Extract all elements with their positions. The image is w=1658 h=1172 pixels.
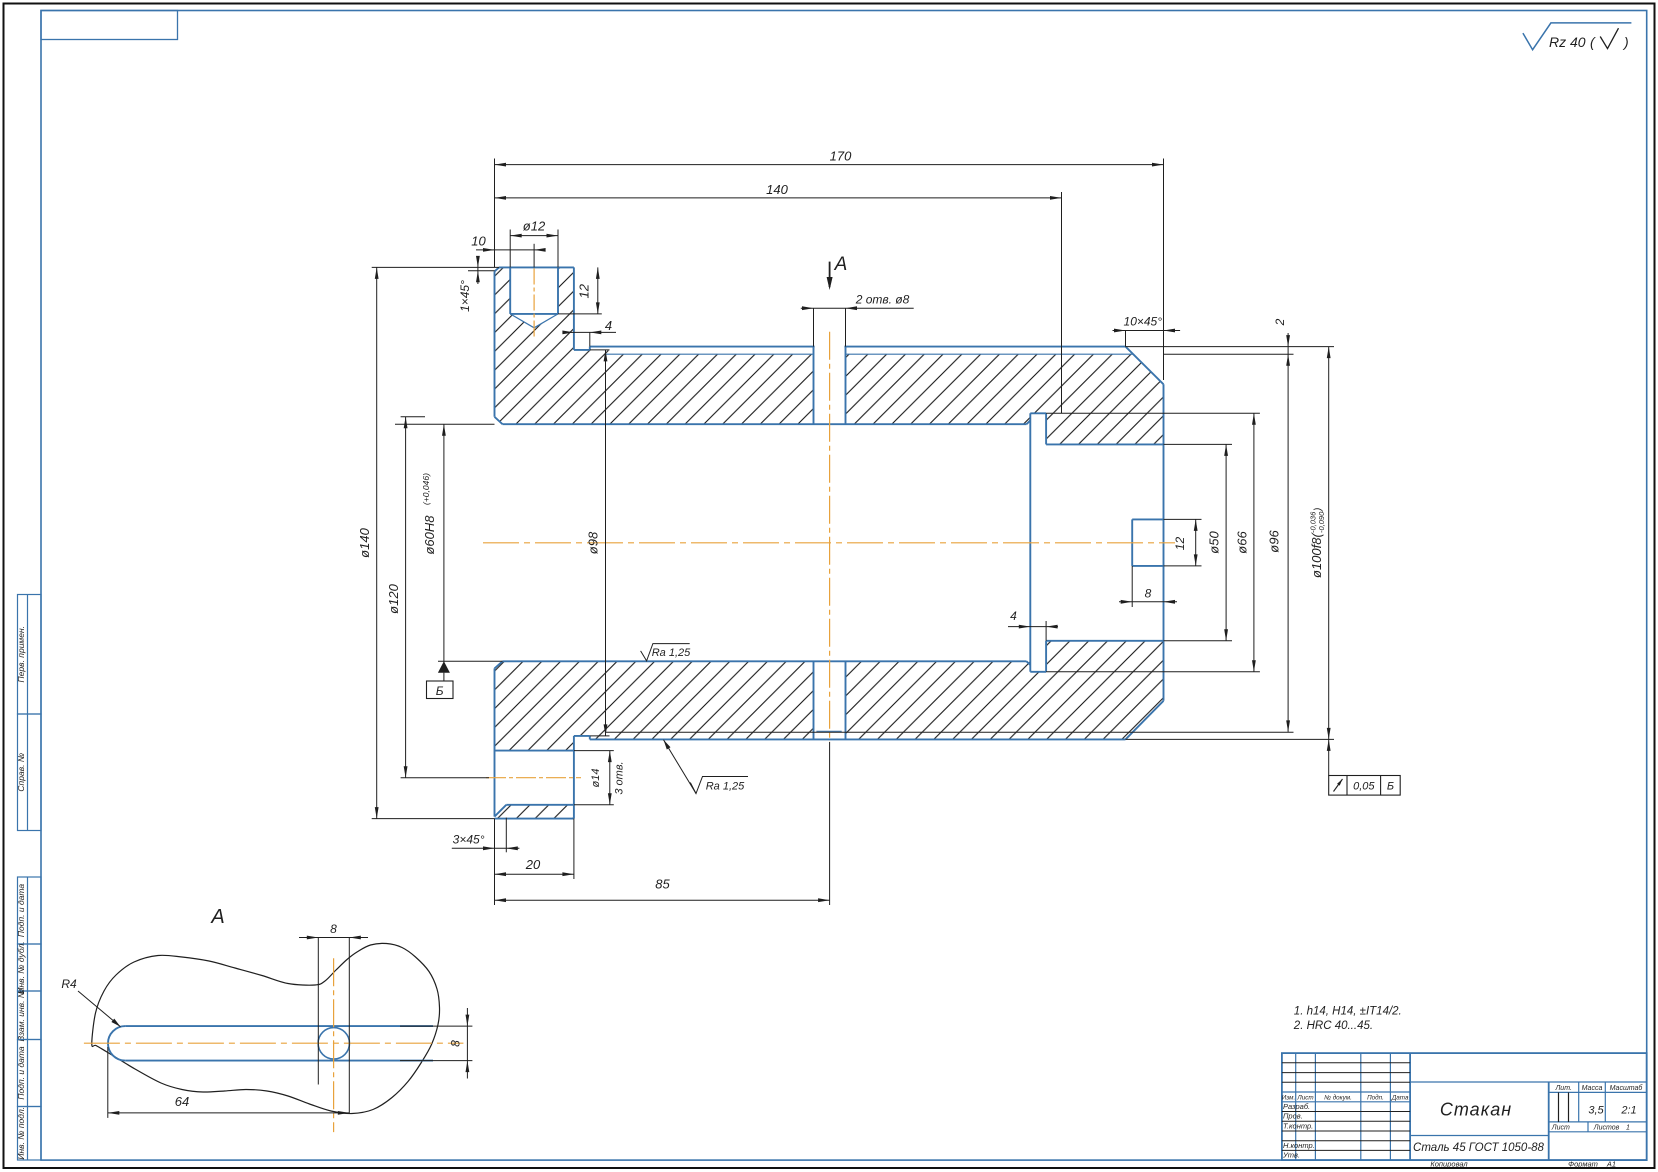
svg-text:64: 64: [175, 1094, 189, 1109]
svg-text:): ): [1313, 508, 1324, 512]
svg-text:Справ. №: Справ. №: [16, 753, 26, 792]
svg-text:Изм.: Изм.: [1282, 1094, 1295, 1101]
svg-text:ø60H8: ø60H8: [422, 515, 437, 555]
svg-text:Разраб.: Разраб.: [1283, 1102, 1310, 1111]
svg-text:10: 10: [471, 233, 486, 248]
svg-text:Сталь 45 ГОСТ 1050-88: Сталь 45 ГОСТ 1050-88: [1413, 1142, 1545, 1154]
svg-text:2: 2: [1273, 318, 1287, 326]
svg-text:2 отв. ø8: 2 отв. ø8: [855, 292, 910, 306]
svg-text:Инв. № дубл.: Инв. № дубл.: [16, 941, 26, 993]
svg-text:(+0,046): (+0,046): [421, 473, 431, 505]
svg-text:2:1: 2:1: [1620, 1105, 1636, 1117]
svg-text:Лист: Лист: [1551, 1124, 1570, 1131]
svg-text:ø98: ø98: [586, 531, 601, 554]
svg-text:Т.контр.: Т.контр.: [1283, 1121, 1313, 1130]
svg-text:ø140: ø140: [357, 527, 372, 557]
svg-text:Ra 1,25: Ra 1,25: [706, 781, 745, 793]
svg-text:3 отв.: 3 отв.: [613, 761, 625, 794]
svg-text:Перв. примен.: Перв. примен.: [16, 626, 26, 683]
svg-text:ø96: ø96: [1267, 530, 1282, 553]
svg-text:Rz 40: Rz 40: [1549, 34, 1586, 50]
svg-text:ø120: ø120: [386, 583, 401, 613]
svg-text:85: 85: [655, 877, 670, 892]
svg-text:12: 12: [1173, 537, 1187, 551]
svg-text:Листов: Листов: [1593, 1124, 1620, 1131]
svg-text:Б: Б: [1387, 781, 1394, 793]
svg-text:4: 4: [605, 318, 612, 333]
svg-text:12: 12: [577, 283, 592, 298]
svg-text:1×45°: 1×45°: [458, 280, 472, 312]
svg-text:Пров.: Пров.: [1283, 1112, 1303, 1121]
svg-text:3,5: 3,5: [1588, 1105, 1604, 1117]
svg-text:R4: R4: [61, 977, 77, 991]
svg-text:А: А: [834, 254, 848, 275]
svg-text:170: 170: [830, 149, 852, 164]
svg-text:1. h14, H14, ±IT14/2.: 1. h14, H14, ±IT14/2.: [1294, 1006, 1402, 1018]
svg-text:Утв.: Утв.: [1282, 1151, 1300, 1160]
svg-text:0,05: 0,05: [1353, 781, 1375, 793]
svg-text:Лит.: Лит.: [1555, 1085, 1572, 1092]
svg-text:1: 1: [1626, 1124, 1630, 1131]
svg-text:10×45°: 10×45°: [1124, 314, 1163, 328]
svg-text:8: 8: [330, 922, 337, 936]
svg-text:-0,090: -0,090: [1317, 511, 1326, 533]
svg-text:Лист: Лист: [1296, 1094, 1313, 1101]
svg-text:ø50: ø50: [1207, 531, 1222, 554]
svg-text:Подп. и дата: Подп. и дата: [16, 884, 26, 937]
svg-text:Б: Б: [436, 684, 444, 698]
svg-text:3×45°: 3×45°: [453, 832, 485, 846]
svg-text:ø14: ø14: [590, 769, 602, 788]
svg-text:ø12: ø12: [523, 219, 546, 234]
svg-text:Копировал: Копировал: [1430, 1160, 1468, 1169]
svg-text:ø66: ø66: [1235, 531, 1250, 554]
svg-text:Инв. № подл.: Инв. № подл.: [16, 1107, 26, 1160]
svg-text:№ докум.: № докум.: [1324, 1093, 1352, 1101]
svg-text:2. HRC 40...45.: 2. HRC 40...45.: [1293, 1020, 1373, 1032]
svg-text:Ra 1,25: Ra 1,25: [652, 647, 691, 659]
svg-text:A1: A1: [1606, 1160, 1616, 1169]
svg-text:8: 8: [1145, 587, 1152, 601]
svg-text:Дата: Дата: [1391, 1094, 1409, 1101]
svg-text:Взам. инв. №: Взам. инв. №: [16, 989, 26, 1042]
svg-text:140: 140: [766, 182, 788, 197]
svg-text:Формат: Формат: [1568, 1160, 1598, 1169]
svg-text:Н.контр.: Н.контр.: [1283, 1141, 1315, 1150]
svg-text:Стакан: Стакан: [1440, 1100, 1512, 1120]
svg-text:А: А: [210, 906, 224, 928]
svg-text:Масса: Масса: [1582, 1085, 1603, 1092]
svg-text:ø100f8(: ø100f8(: [1309, 532, 1324, 578]
svg-text:Масштаб: Масштаб: [1610, 1084, 1644, 1092]
svg-text:Подп. и дата: Подп. и дата: [16, 1046, 26, 1099]
svg-text:Подп.: Подп.: [1367, 1093, 1384, 1101]
svg-text:8: 8: [449, 1040, 463, 1047]
svg-text:20: 20: [525, 857, 541, 872]
svg-text:4: 4: [1010, 609, 1017, 623]
